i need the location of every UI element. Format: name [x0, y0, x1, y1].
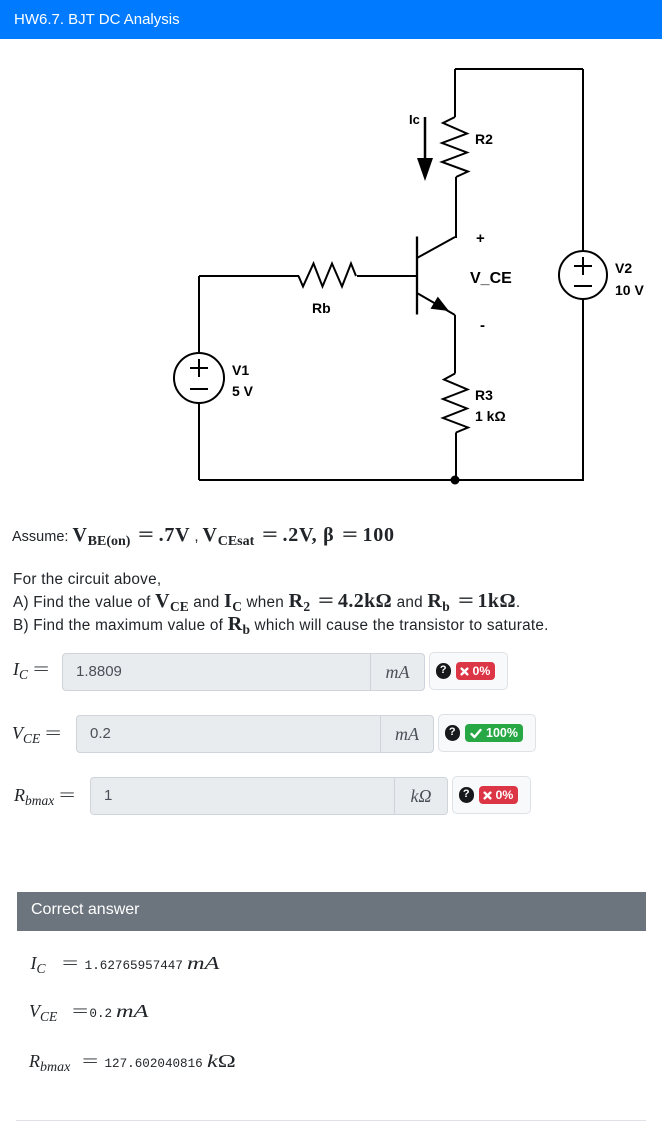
correct answer line VCE [29, 1001, 140, 1025]
wire: emitter to bottom rail [455, 433, 457, 481]
junction node [451, 476, 460, 485]
svg-text:V_CE: V_CE [470, 270, 512, 287]
svg-text:Ic: Ic [409, 112, 420, 127]
wire: top rail from collector branch to V2 branch [455, 68, 583, 70]
assumption line [12, 528, 395, 545]
wire: bottom rail [199, 479, 583, 481]
current arrow Ic [417, 117, 433, 181]
circuit schematic SVG [0, 0, 662, 510]
svg-text:10 V: 10 V [615, 282, 644, 298]
wire: base lead right segment [357, 275, 416, 277]
resistor R3 [443, 374, 468, 433]
svg-text:Rb: Rb [312, 300, 331, 316]
correct answer line Rbmax [29, 1051, 228, 1076]
correct answer line IC [31, 953, 211, 977]
wire: collector vertical lead to transistor [455, 177, 456, 237]
wire: left rail upper [198, 276, 200, 353]
svg-text:-: - [480, 317, 485, 334]
transistor Q1 [417, 237, 455, 316]
svg-text:V2: V2 [615, 260, 632, 276]
correct answer header [17, 892, 646, 931]
wire: left rail lower [198, 403, 200, 480]
svg-text:V1: V1 [232, 362, 249, 378]
svg-text:1 kΩ: 1 kΩ [475, 408, 506, 424]
wire: right rail lower (V2 to bottom rail) [582, 299, 584, 481]
svg-text:R2: R2 [475, 131, 493, 147]
answer row IC [13, 659, 48, 683]
wire: base lead left segment [199, 275, 299, 277]
top title bar [0, 0, 662, 39]
svg-text:R3: R3 [475, 387, 493, 403]
voltage source V1 [174, 353, 224, 403]
wire: emitter vertical lead [454, 315, 456, 374]
resistor Rb [299, 264, 357, 287]
question text [13, 569, 549, 637]
bottom divider [16, 1120, 646, 1121]
wire: right rail upper (V2 to top) [582, 69, 584, 251]
answer row Rbmax [14, 785, 74, 809]
wire: collector top lead [454, 69, 456, 117]
svg-text:5 V: 5 V [232, 383, 254, 399]
resistor R2 [442, 117, 468, 177]
answer row VCE [12, 723, 60, 747]
svg-text:+: + [476, 230, 485, 247]
voltage source V2 [559, 251, 607, 299]
